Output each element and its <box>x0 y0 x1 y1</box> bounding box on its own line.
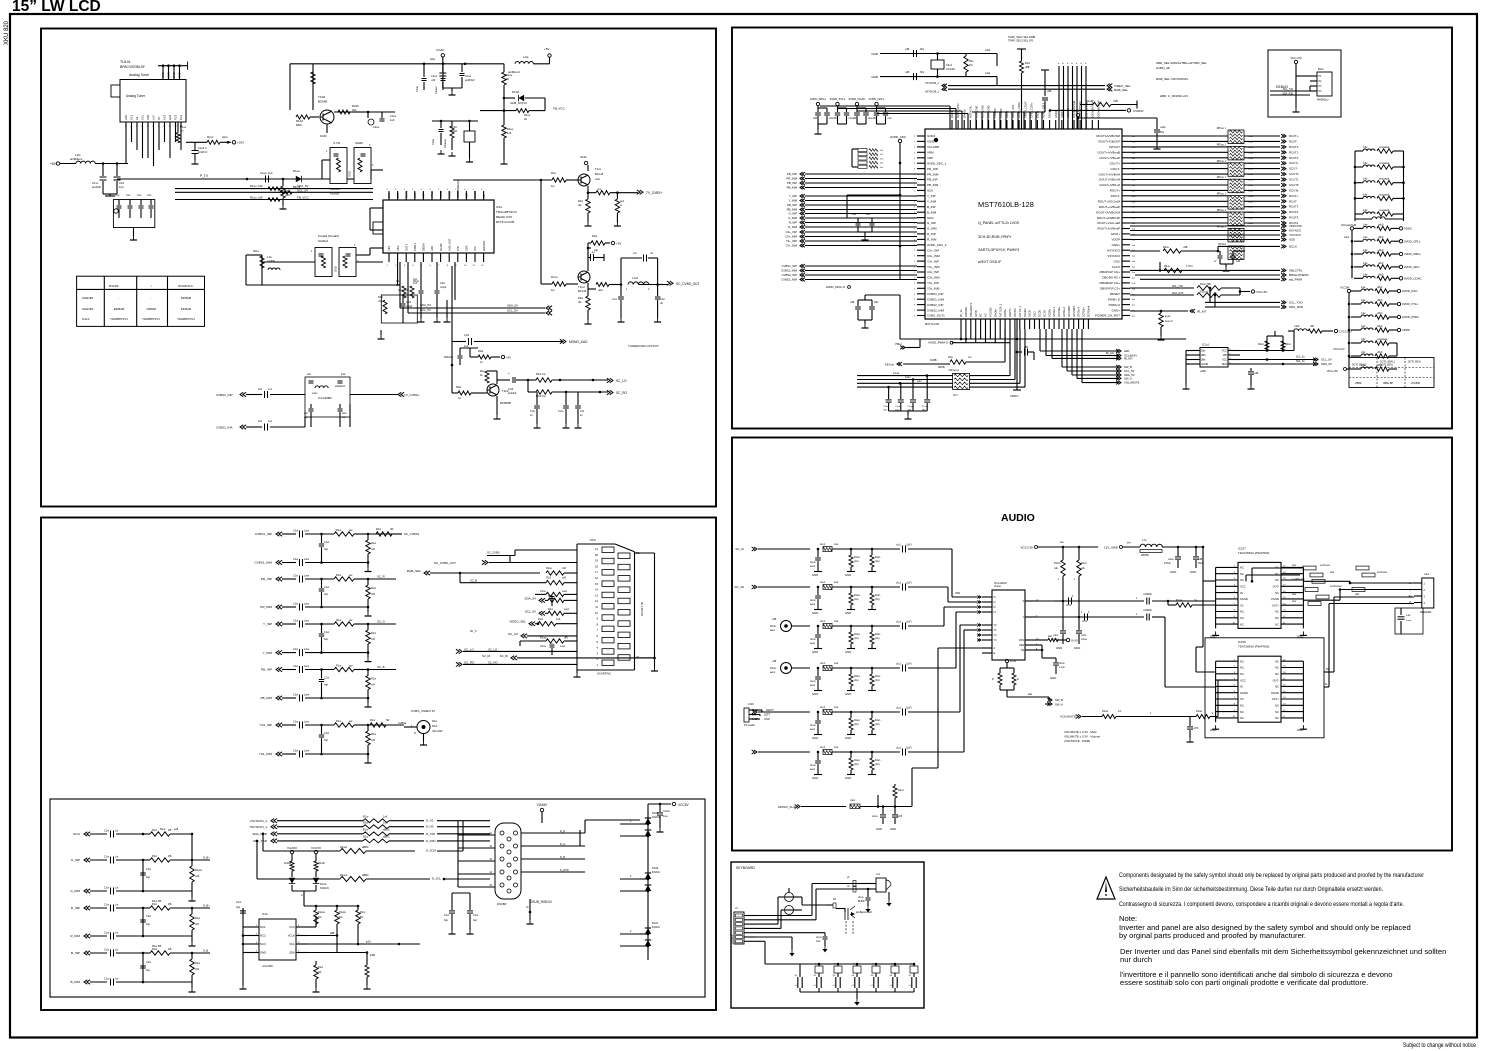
mono to switch <box>912 648 982 807</box>
svg-text:u1u1: u1u1 <box>896 583 902 585</box>
svg-text:VCC5V: VCC5V <box>678 803 690 807</box>
svg-text:aesp: aesp <box>810 643 816 645</box>
svg-text:PB_INM: PB_INM <box>927 183 939 187</box>
svg-text:1.7K3: 1.7K3 <box>1186 265 1193 268</box>
svg-text:4148_SOT23: 4148_SOT23 <box>510 101 527 105</box>
svg-text:C1ww: C1ww <box>663 810 670 813</box>
svg-text:DCLK: DCLK <box>1289 245 1297 249</box>
svg-text:SC_AU: SC_AU <box>508 632 518 636</box>
volmute note <box>1064 730 1100 743</box>
svg-text:3SWT1: 3SWT1 <box>1008 308 1012 317</box>
cap IC2xx <box>1248 368 1259 389</box>
svg-text:OUT1: OUT1 <box>404 244 408 251</box>
svg-text:Subject to change without noti: Subject to change without notice <box>1403 1042 1476 1049</box>
decoupling caps bottom <box>883 376 930 419</box>
svg-text:3CDB+: 3CDB+ <box>1047 308 1051 317</box>
svg-text:RCUT4: RCUT4 <box>1289 210 1299 214</box>
svg-text:Lww: Lww <box>304 750 309 753</box>
svg-text:Cxld: Cxld <box>508 387 514 391</box>
pullup pair 4.7k <box>1258 331 1291 351</box>
svg-text:R1u1: R1u1 <box>875 634 881 636</box>
svg-text:RGB_SEL: RGB_SEL <box>1114 88 1128 92</box>
svg-text:RP1uu 1: RP1uu 1 <box>1217 209 1227 212</box>
svg-text:OUT-: OUT- <box>1273 585 1280 589</box>
dsub gnd pin <box>526 899 534 924</box>
svg-text:Sd1u: Sd1u <box>253 250 259 253</box>
audio input PC R <box>752 747 925 780</box>
svg-text:CVBSa: CVBSa <box>398 722 407 725</box>
wire VIDEO_SEL <box>509 618 577 626</box>
svg-text:Y_INP: Y_INP <box>263 622 272 626</box>
top bus rail <box>972 112 1045 129</box>
svg-text:C3+_INP: C3+_INP <box>786 230 798 234</box>
svg-text:SAWF: SAWF <box>355 141 363 145</box>
IF IC bottom pins <box>387 238 486 267</box>
wire VIDEO_SEL <box>948 84 1131 88</box>
keyboard connector CN2 <box>732 907 756 944</box>
svg-text:GCUT0: GCUT0 <box>1289 183 1299 187</box>
svg-text:CVBS1_INM: CVBS1_INM <box>927 297 945 301</box>
svg-text:R1uu: R1uu <box>524 113 531 117</box>
svg-text:Rlx1 1w: Rlx1 1w <box>536 372 546 376</box>
svg-text:19: 19 <box>595 559 598 563</box>
AVDD_ADC vertical <box>890 135 907 280</box>
svg-text:HSYNCM2: HSYNCM2 <box>981 105 985 118</box>
svg-text:AFD: AFD <box>430 246 434 251</box>
svg-text:R2uu: R2uu <box>1163 246 1170 249</box>
svg-text:2Bd: 2Bd <box>1201 354 1206 357</box>
svg-text:NC: NC <box>1240 578 1244 582</box>
svg-text:Lxx/1uure: Lxx/1uure <box>1320 564 1331 567</box>
svg-text:C1w: C1w <box>293 558 298 561</box>
svg-text:GND: GND <box>812 692 818 696</box>
svg-text:CLKO: CLKO <box>1112 265 1121 269</box>
svg-text:BC: BC <box>979 313 983 317</box>
switch out caps <box>1035 584 1098 623</box>
input filter PB <box>260 664 396 708</box>
transistor T1ud <box>578 271 590 293</box>
svg-text:L4w: L4w <box>1361 312 1366 315</box>
svg-text:SC_CVBS_OUT: SC_CVBS_OUT <box>676 282 699 286</box>
svg-text:VCCu+5V: VCCu+5V <box>1327 370 1339 373</box>
svg-text:GND: GND <box>1074 646 1080 650</box>
svg-text:R1d: R1d <box>152 854 157 858</box>
svg-text:Y3+_INM: Y3+_INM <box>785 244 797 248</box>
svg-text:GOUT+/VB+aP: GOUT+/VB+aP <box>1099 156 1120 160</box>
svg-text:aesp: aesp <box>810 729 816 731</box>
svg-text:Cxx: Cxx <box>137 193 142 197</box>
svg-text:Cxls: Cxls <box>530 410 536 413</box>
EEPROM uC24MC body <box>259 912 296 968</box>
terminal VCC5V out <box>648 802 690 807</box>
svg-text:1uuB: 1uuB <box>1248 141 1254 143</box>
svg-text:aBBC: aBBC <box>362 873 369 877</box>
svg-text:3Be: 3Be <box>1201 359 1206 362</box>
svg-text:CVBS1_INP: CVBS1_INP <box>255 532 272 536</box>
svg-text:18w: 18w <box>883 409 887 411</box>
svg-text:R1w: R1w <box>336 719 341 723</box>
tuner AGC caps shield box <box>113 193 154 240</box>
ferrite filter stack1 <box>1354 146 1405 221</box>
svg-text:SAW1B1: SAW1B1 <box>82 307 94 311</box>
svg-text:3SVPD: 3SVPD <box>1013 308 1017 317</box>
svg-text:SW_B: SW_B <box>1055 698 1063 702</box>
svg-text:req/uauaL: req/uauaL <box>1377 338 1388 341</box>
svg-text:R1ww: R1ww <box>340 873 347 877</box>
svg-text:R1uu: R1uu <box>506 73 513 77</box>
RGB input G_INM <box>70 887 195 902</box>
svg-text:GND: GND <box>334 266 338 272</box>
cap at VCC5V <box>657 803 671 832</box>
audio input SC_A1 <box>735 544 925 577</box>
svg-text:SDA_RXD: SDA_RXD <box>1289 305 1304 309</box>
svg-text:G_INM: G_INM <box>927 227 937 231</box>
svg-text:HSYNCM_: HSYNCM_ <box>968 105 972 118</box>
ground under 5V caps <box>103 194 117 196</box>
svg-text:w: w <box>620 204 622 207</box>
right arrows sync <box>1130 224 1303 242</box>
svg-text:1uF: 1uF <box>396 284 401 287</box>
svg-text:AVDD_DMC-O: AVDD_DMC-O <box>826 285 846 289</box>
svg-text:u1u1: u1u1 <box>820 707 826 709</box>
svg-text:SOT1 SEAL2: SOT1 SEAL2 <box>1352 364 1367 367</box>
PC audio jack <box>744 702 774 727</box>
svg-text:VCC: VCC <box>289 925 295 929</box>
wire left bias <box>847 194 901 218</box>
svg-text:L4u1: L4u1 <box>985 72 991 75</box>
svg-text:12: 12 <box>595 599 598 603</box>
svg-text:(1w): (1w) <box>875 680 880 682</box>
svg-text:cxld: cxld <box>660 298 665 301</box>
power filter stack2 <box>1341 223 1422 280</box>
svg-text:VC: VC <box>1240 603 1244 607</box>
svg-text:Contrassegno di sicurezza. I c: Contrassegno di sicurezza. I componenti … <box>1119 901 1404 908</box>
svg-text:antr: antr <box>304 412 308 415</box>
IF options table <box>77 276 205 326</box>
svg-text:16: 16 <box>595 576 598 580</box>
svg-text:u1B: u1B <box>852 213 857 216</box>
svg-text:GND: GND <box>845 611 851 615</box>
svg-text:RFT5 tvCC05: RFT5 tvCC05 <box>496 220 515 224</box>
RGB input R_INP <box>71 899 210 912</box>
svg-text:TACO: TACO <box>473 191 477 198</box>
svg-text:Lww: Lww <box>304 665 309 668</box>
svg-text:u1uw: u1uw <box>810 681 816 683</box>
diode D1xx <box>293 169 302 189</box>
svg-text:C1uu: C1uu <box>416 85 419 92</box>
svg-text:(1w): (1w) <box>875 599 880 601</box>
svg-text:BL_EN: BL_EN <box>1106 352 1114 355</box>
svg-text:1uw: 1uw <box>663 815 668 818</box>
svg-text:bsp: bsp <box>146 969 151 972</box>
audio amp IC109 <box>1210 640 1307 732</box>
svg-text:3SCB: 3SCB <box>1028 310 1032 317</box>
AVDD filter terminals <box>810 97 892 134</box>
keyboard resistors top <box>847 877 860 892</box>
svg-text:L4w: L4w <box>1361 338 1366 341</box>
svg-text:R1uw: R1uw <box>1196 710 1202 713</box>
svg-text:LEFT: LEFT <box>764 714 771 717</box>
svg-text:Lww: Lww <box>560 645 565 648</box>
svg-text:SDA_5V: SDA_5V <box>297 184 309 188</box>
svg-text:50u: 50u <box>1160 131 1165 134</box>
SW arrows <box>1007 693 1063 707</box>
svg-text:R1w: R1w <box>318 966 323 969</box>
caps on SC_LO <box>530 392 541 428</box>
cap cluster pwm <box>850 295 900 339</box>
svg-text:HCO/WIDEO(X: HCO/WIDEO(X <box>456 180 460 198</box>
svg-text:YELLOW: YELLOW <box>432 730 443 733</box>
warning text it <box>1119 901 1404 908</box>
svg-text:(1w): (1w) <box>875 764 880 766</box>
svg-text:ailw: ailw <box>1048 636 1052 638</box>
svg-text:1uuB: 1uuB <box>1248 174 1254 176</box>
svg-text:SDA_RXD: SDA_RXD <box>252 832 267 836</box>
svg-text:u1u1: u1u1 <box>896 748 902 750</box>
svg-text:rear: rear <box>595 177 600 181</box>
svg-text:R: R <box>414 732 416 735</box>
AVDD rails <box>820 106 968 129</box>
svg-text:TDA7266SA (PW47060): TDA7266SA (PW47060) <box>1238 551 1269 555</box>
svg-text:GCUT3: GCUT3 <box>1289 172 1299 176</box>
svg-text:ROUT+/GBCKP: ROUT+/GBCKP <box>1098 140 1120 144</box>
svg-text:R1w: R1w <box>548 608 553 611</box>
audio amp IC109 box <box>1205 638 1324 738</box>
svg-text:AGND: AGND <box>1201 363 1208 366</box>
svg-text:C3x_INP: C3x_INP <box>927 270 939 274</box>
svg-text:TDAxx88TS/V4: TDAxx88TS/V4 <box>496 210 517 214</box>
svg-text:C1w: C1w <box>293 620 298 623</box>
svg-text:RCUT0: RCUT0 <box>1289 156 1299 160</box>
svg-text:C1w: C1w <box>293 575 298 578</box>
svg-text:VRP: VRP <box>927 156 933 160</box>
wire sync left arrows <box>925 81 947 93</box>
svg-text:C1t1: C1t1 <box>406 301 412 304</box>
svg-text:SGND: SGND <box>1240 691 1248 695</box>
svg-text:PBuw: PBuw <box>895 342 902 346</box>
svg-text:Cxxu: Cxxu <box>558 410 564 413</box>
svg-text:3VDD_CPLL: 3VDD_CPLL <box>868 97 884 101</box>
svg-text:G_INP: G_INP <box>71 858 80 862</box>
svg-text:u47u: u47u <box>1082 621 1088 623</box>
svg-text:GND: GND <box>1297 728 1303 732</box>
svg-text:D_B+: D_B+ <box>203 904 210 908</box>
svg-text:IC107: IC107 <box>1238 546 1246 550</box>
svg-text:1uuB: 1uuB <box>1248 136 1254 138</box>
svg-text:C1w: C1w <box>293 721 298 724</box>
svg-text:D_HS: D_HS <box>426 825 434 829</box>
svg-text:Y_INP: Y_INP <box>789 194 797 198</box>
resistor R2uu top <box>1080 99 1137 109</box>
diode D1S0 4148 <box>503 90 545 111</box>
scaler left pins <box>914 134 947 318</box>
svg-text:u1u1: u1u1 <box>820 621 826 623</box>
wire SC_LO <box>456 647 577 653</box>
svg-text:+5V: +5V <box>152 115 156 120</box>
SCART connector J1 <box>574 538 659 677</box>
wire SC_B scart <box>460 573 577 585</box>
svg-text:Y_INM: Y_INM <box>788 199 797 203</box>
svg-text:antMsmd: antMsmd <box>335 385 346 388</box>
svg-text:+5V: +5V <box>50 162 57 166</box>
svg-text:GND: GND <box>320 134 328 138</box>
svg-text:R1uw: R1uw <box>854 634 860 636</box>
svg-text:fp4GB: fp4GB <box>284 862 291 865</box>
key transistors <box>785 888 827 915</box>
svg-text:ROUT+VGC+aM: ROUT+VGC+aM <box>1097 221 1120 225</box>
svg-text:u47u: u47u <box>1066 605 1072 607</box>
svg-text:3x3 HD9B3: 3x3 HD9B3 <box>318 396 332 400</box>
svg-text:L+1RD u1w: L+1RD u1w <box>1292 578 1305 581</box>
svg-text:L4w: L4w <box>1363 162 1368 165</box>
svg-text:HBD: C_MODIF/+UV: HBD: C_MODIF/+UV <box>1160 94 1188 98</box>
svg-text:Der Inverter und das Panel sin: Der Inverter und das Panel sind ebenfall… <box>1120 947 1446 956</box>
svg-text:C1w: C1w <box>104 904 109 907</box>
resistor R1uu pulldown <box>176 122 187 143</box>
svg-text:C1w: C1w <box>293 750 298 753</box>
svg-text:PWM+O: PWM+O <box>1109 303 1121 307</box>
svg-text:(1w): (1w) <box>854 561 859 563</box>
svg-text:VOL/MUTE ≤ 0.3V : Volume: VOL/MUTE ≤ 0.3V : Volume <box>1064 735 1100 739</box>
svg-text:NC: NC <box>1240 622 1244 626</box>
svg-text:ADC: ADC <box>124 114 128 120</box>
svg-text:SDA_5V: SDA_5V <box>420 303 431 307</box>
right bus wires <box>1130 136 1280 225</box>
svg-text:cxxx: cxxx <box>612 298 618 301</box>
svg-text:DEP: DEP <box>465 192 469 198</box>
svg-text:3CPDb+4: 3CPDb+4 <box>1087 305 1091 317</box>
svg-text:R1lx: R1lx <box>578 296 584 300</box>
svg-text:u47u: u47u <box>1081 634 1087 637</box>
svg-text:IC110: IC110 <box>82 317 90 321</box>
svg-text:PR_INP: PR_INP <box>927 167 938 171</box>
svg-text:4MHz: 4MHz <box>450 129 458 133</box>
svg-text:3VTOOP_1: 3VTOOP_1 <box>998 303 1002 317</box>
svg-text:VCC+5V: VCC+5V <box>1256 290 1267 294</box>
svg-text:D_B.: D_B. <box>203 949 209 953</box>
svg-text:SC_CVBS: SC_CVBS <box>487 551 500 555</box>
amp in wires2 <box>1196 581 1216 672</box>
svg-text:ROUT1A/VBCSM: ROUT1A/VBCSM <box>1096 134 1120 138</box>
emitter network TV_CVBS <box>587 186 638 195</box>
svg-text:u1uw: u1uw <box>872 816 878 818</box>
svg-text:w/EXT OSD IF: w/EXT OSD IF <box>978 260 1002 264</box>
svg-text:R_INM: R_INM <box>927 238 937 242</box>
svg-text:TU101: TU101 <box>120 60 131 64</box>
svg-text:D_SCL: D_SCL <box>432 877 441 881</box>
svg-text:1u5: 1u5 <box>507 131 512 135</box>
svg-text:R1u1: R1u1 <box>875 676 881 678</box>
svg-text:(1w): (1w) <box>875 561 880 563</box>
svg-text:NC: NC <box>1275 710 1279 714</box>
svg-text:a 1ue: a 1ue <box>1059 667 1065 669</box>
svg-text:VDDC: VDDC <box>1010 394 1019 398</box>
svg-text:GND: GND <box>1050 676 1056 680</box>
svg-text:R1u1: R1u1 <box>875 760 881 762</box>
svg-text:GND: GND <box>812 573 818 577</box>
svg-text:1uF: 1uF <box>119 185 124 189</box>
input filter PR <box>260 573 396 616</box>
feedback cap top <box>621 252 658 285</box>
svg-text:GOUT+: GOUT+ <box>1110 161 1121 165</box>
wire SCL_5V <box>175 189 373 195</box>
svg-text:su8: su8 <box>174 827 179 831</box>
svg-text:LsHHE: LsHHE <box>267 260 275 263</box>
svg-text:Pin1: Pin1 <box>179 114 183 120</box>
mosfet dashes <box>846 921 853 934</box>
svg-text:hR: hR <box>386 718 389 722</box>
svg-text:B/G/DK: B/G/DK <box>109 284 119 288</box>
svg-text:READt IC07: READt IC07 <box>496 215 513 219</box>
svg-text:R1w: R1w <box>336 528 341 532</box>
svg-text:AC7: AC7 <box>953 394 958 397</box>
svg-text:DBGB/GP CH+: DBGB/GP CH+ <box>1099 281 1120 285</box>
svg-text:u22F: u22F <box>897 816 903 818</box>
svg-text:GCUT-: GCUT- <box>1289 167 1298 171</box>
svg-text:PR_INP: PR_INP <box>787 172 797 176</box>
audio supply VCC3.3A <box>1020 541 1098 550</box>
bottom pin drops <box>961 329 1005 343</box>
svg-text:VBBR: VBBR <box>1355 382 1362 385</box>
svg-text:u1u1: u1u1 <box>820 663 826 665</box>
sync input resistors <box>250 815 490 844</box>
bead rail top <box>1246 568 1302 583</box>
svg-text:VPP: VPP <box>422 193 426 198</box>
wire SDA_5V scart <box>524 595 577 603</box>
svg-text:Cxls: Cxls <box>464 333 470 337</box>
svg-text:R: R <box>1017 678 1019 681</box>
audio input RCA L <box>770 618 925 654</box>
svg-text:TDA9885TS/V3: TDA9885TS/V3 <box>142 318 160 321</box>
svg-text:Kxxald (Kxxald): Kxxald (Kxxald) <box>318 234 339 238</box>
svg-text:RCA+: RCA+ <box>770 667 777 670</box>
svg-text:VDOP: VDOP <box>1072 109 1080 113</box>
scaler bottom pins <box>959 302 1090 329</box>
svg-text:u1B: u1B <box>905 48 910 51</box>
svg-text:u1B: u1B <box>1254 372 1259 375</box>
svg-text:O+3V: O+3V <box>1071 639 1078 643</box>
svg-text:SCL_TXD: SCL_TXD <box>1289 301 1303 305</box>
svg-text:Lww: Lww <box>562 590 567 593</box>
svg-text:Y3+_INM: Y3+_INM <box>927 265 940 269</box>
keyboard section box <box>731 862 924 1008</box>
svg-text:NC1: NC1 <box>130 114 134 120</box>
svg-text:IN: IN <box>1240 591 1243 595</box>
svg-text:V2B: V2B <box>1113 99 1118 103</box>
svg-text:C1pp: C1pp <box>260 171 267 175</box>
svg-text:SC_G: SC_G <box>377 620 386 624</box>
svg-text:aesp: aesp <box>810 685 816 687</box>
svg-text:by orginal parts produced and: by orginal parts produced and proofed by… <box>1119 931 1306 940</box>
svg-text:VCC: VCC <box>1240 678 1246 682</box>
svg-text:1uuB: 1uuB <box>1248 190 1254 192</box>
svg-text:1uK: 1uK <box>556 618 561 621</box>
transistor T1xx BC848 <box>578 165 604 186</box>
resistor base T110 <box>452 385 487 400</box>
RGB input B_INP <box>71 944 210 957</box>
svg-text:u1uw: u1uw <box>810 725 816 727</box>
svg-text:GND: GND <box>1190 570 1196 574</box>
svg-text:RCUT3: RCUT3 <box>1289 145 1299 149</box>
svg-text:R1w: R1w <box>363 828 368 832</box>
svg-text:uCxxMC: uCxxMC <box>262 964 273 968</box>
svg-text:D_RXD: D_RXD <box>560 868 569 872</box>
terminal AVDD_DAC-O <box>826 285 851 289</box>
svg-text:Cxx: Cxx <box>115 193 120 197</box>
svg-text:RCUT1: RCUT1 <box>1289 150 1299 154</box>
svg-text:Rce: Rce <box>551 171 556 175</box>
svg-text:u8u0: u8u0 <box>1378 223 1384 226</box>
